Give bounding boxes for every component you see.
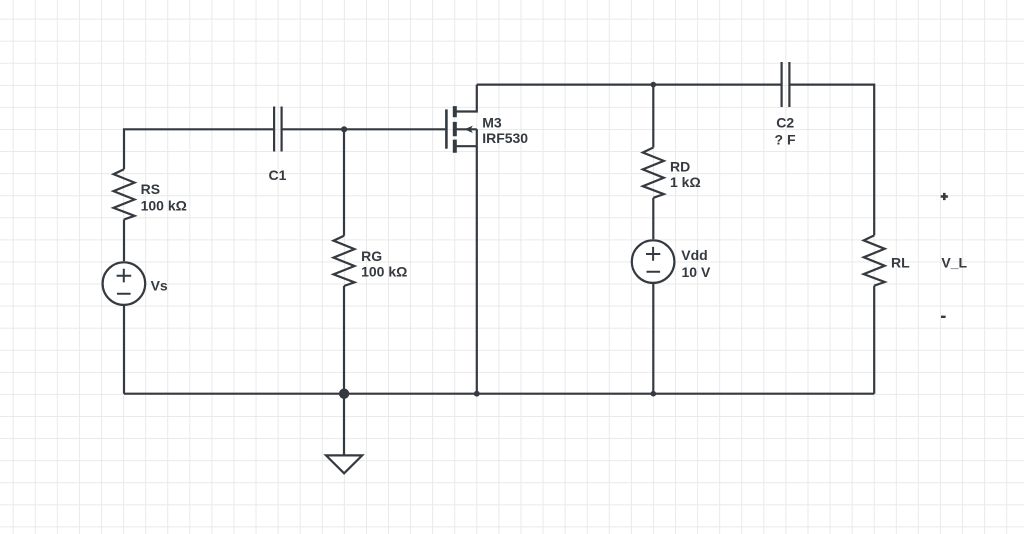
node: output plus terminal <box>941 193 948 200</box>
svg-text:100 kΩ: 100 kΩ <box>361 263 407 279</box>
label: Vs <box>151 277 168 293</box>
svg-text:RL: RL <box>891 255 910 271</box>
capacitor C1 <box>274 107 282 152</box>
transistor M3 channel bars <box>453 106 457 153</box>
node: output minus terminal <box>941 316 946 318</box>
label: RG <box>361 248 382 264</box>
node: V_L output <box>941 255 967 271</box>
wire: C2 to top-right corner down to RL <box>789 85 874 236</box>
wire: RL to bottom rail <box>873 286 875 394</box>
label: M3 <box>482 115 502 131</box>
svg-text:Vs: Vs <box>151 277 168 293</box>
wire: Vdd to bottom rail <box>652 284 654 394</box>
svg-text:IRF530: IRF530 <box>482 130 528 146</box>
label: RD value 1 kOhm <box>670 174 701 190</box>
transistor M3 (IRF530 NMOS) gate bar <box>445 109 448 148</box>
label: C2 value ? F <box>775 132 796 148</box>
junction: source node on bottom rail <box>474 391 480 397</box>
label: RG value 100 kOhm <box>361 263 407 279</box>
wire: RD to Vdd <box>652 198 654 239</box>
junction: ground node at RG branch <box>339 389 349 399</box>
resistor RD <box>643 148 664 198</box>
label: RS <box>141 181 160 197</box>
svg-text:RD: RD <box>670 159 690 175</box>
source Vs <box>103 262 146 305</box>
svg-text:? F: ? F <box>775 132 796 148</box>
svg-text:C1: C1 <box>269 167 287 183</box>
wire: top rail from drain to C2 <box>477 83 782 85</box>
svg-text:V_L: V_L <box>941 255 967 271</box>
capacitor C2 <box>782 62 790 107</box>
transistor M3 source lead <box>457 145 477 147</box>
label: RD <box>670 159 690 175</box>
wire: gate node down to RG <box>343 129 345 235</box>
resistor RG <box>334 236 355 286</box>
wire: RS to Vs <box>123 220 125 262</box>
svg-text:100 kΩ: 100 kΩ <box>141 198 187 214</box>
label: C1 <box>269 167 287 183</box>
svg-text:C2: C2 <box>776 115 794 131</box>
wire: RG to bottom rail <box>343 286 345 394</box>
svg-text:RG: RG <box>361 248 382 264</box>
label: IRF530 <box>482 130 528 146</box>
wire: bottom rail <box>124 393 874 395</box>
junction: Vdd minus node on bottom rail <box>651 391 657 397</box>
label: Vdd <box>681 247 707 263</box>
junction: gate node <box>341 126 347 132</box>
label: RL <box>891 255 910 271</box>
label: Vdd value 10 V <box>682 264 711 280</box>
wire: Vs to bottom rail <box>123 306 125 394</box>
resistor RS <box>114 169 135 219</box>
resistor RL <box>864 235 885 285</box>
svg-text:Vdd: Vdd <box>681 247 707 263</box>
svg-text:RS: RS <box>141 181 160 197</box>
source Vdd <box>632 240 675 283</box>
transistor M3 body lead with arrow <box>457 126 477 133</box>
label: C2 <box>776 115 794 131</box>
transistor M3 drain lead <box>457 85 477 112</box>
svg-text:M3: M3 <box>482 115 502 131</box>
wire: top-left from C1 to left corner <box>124 129 274 169</box>
svg-text:1 kΩ: 1 kΩ <box>670 174 701 190</box>
wire: ground stem <box>343 394 345 456</box>
wire: source/body of M3 down to bottom rail <box>476 129 478 393</box>
wire: drain node down to RD <box>652 85 654 148</box>
label: RS value 100 kOhm <box>141 198 187 214</box>
junction: drain node at RD branch <box>651 82 657 88</box>
ground <box>326 455 362 473</box>
wire: C1 to gate of M3 <box>282 128 446 130</box>
svg-text:10 V: 10 V <box>682 264 711 280</box>
